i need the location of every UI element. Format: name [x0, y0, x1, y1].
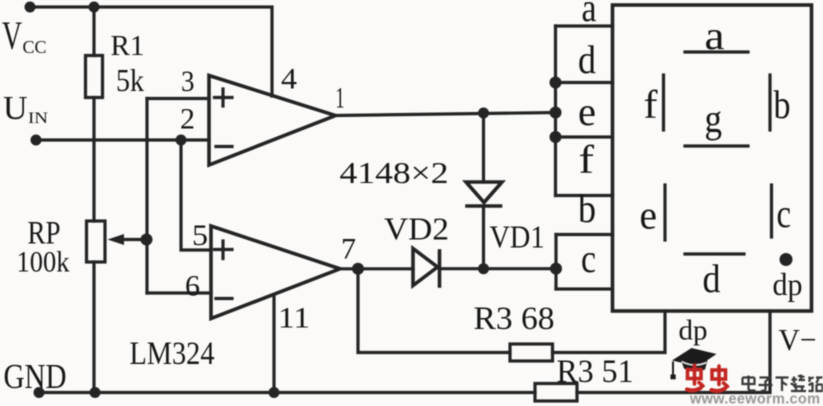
- watermark graduation cap: [671, 348, 717, 379]
- wire stub b: [556, 233, 613, 236]
- wire pin3 to pin6 vertical: [145, 99, 148, 294]
- display DS1 outline: [613, 5, 812, 311]
- segment c: [772, 185, 792, 237]
- svg-text:3: 3: [181, 65, 195, 98]
- watermark eeworm logo: [671, 348, 823, 406]
- wire pin 6: [147, 291, 211, 294]
- wire R3 51 to V-: [577, 311, 770, 393]
- segment dp: [773, 253, 803, 302]
- svg-text:CC: CC: [23, 37, 47, 57]
- svg-text:100k: 100k: [17, 246, 70, 279]
- wire pin 3: [147, 97, 209, 100]
- svg-text:b: b: [774, 82, 791, 127]
- wire segment bus adef: [554, 26, 557, 196]
- svg-text:e: e: [578, 89, 596, 134]
- node Uin terminal: [31, 135, 42, 146]
- wire pin 7 output right: [440, 267, 557, 270]
- svg-text:VD1: VD1: [490, 219, 545, 255]
- svg-text:R3 68: R3 68: [474, 301, 555, 337]
- node junction pin2 pin5: [176, 135, 187, 146]
- wire Vcc rail to op-amp pin 4: [30, 7, 272, 96]
- node bus c junction: [550, 263, 562, 275]
- watermark chong character 2: [712, 366, 728, 391]
- wire VD1 cathode lead: [482, 206, 485, 269]
- wire VD1 anode lead: [482, 113, 485, 182]
- potentiometer RP: [87, 221, 106, 262]
- segment g: [685, 96, 748, 146]
- svg-text:f: f: [579, 137, 595, 182]
- svg-text:IN: IN: [28, 110, 49, 127]
- wire segment bus bc: [554, 235, 557, 290]
- svg-text:7: 7: [341, 233, 356, 266]
- resistor R1: [86, 56, 103, 98]
- wire RP to ground rail: [92, 262, 95, 393]
- wire R3 68 to display dp pin: [553, 311, 666, 353]
- op-amp U1A: [209, 76, 336, 166]
- op-amp U1B: [211, 226, 340, 319]
- svg-text:VD2: VD2: [384, 211, 449, 247]
- wire ground rail: [39, 391, 535, 394]
- diode VD1: [466, 182, 502, 206]
- node Vcc terminal: [25, 2, 36, 13]
- svg-text:www.eeworm.com: www.eeworm.com: [689, 392, 820, 406]
- wire R1 to RP: [92, 98, 95, 222]
- node bus d junction: [550, 77, 562, 89]
- wire stub d: [556, 81, 613, 84]
- wire stub f: [556, 194, 613, 197]
- svg-text:c: c: [777, 191, 792, 236]
- svg-text:a: a: [705, 13, 725, 58]
- node wiper junction: [141, 234, 153, 246]
- svg-text:a: a: [582, 0, 597, 30]
- wire stub c: [556, 287, 613, 290]
- svg-text:R3 51: R3 51: [557, 354, 634, 390]
- watermark text dianzi xiazaizhan: [743, 375, 823, 392]
- svg-text:g: g: [705, 96, 723, 141]
- svg-text:c: c: [581, 236, 596, 281]
- svg-text:4148×2: 4148×2: [340, 155, 449, 190]
- node R1 top junction: [89, 2, 100, 13]
- watermark chong character 1: [687, 365, 703, 390]
- svg-text:1: 1: [336, 82, 345, 115]
- segment d: [685, 254, 744, 301]
- svg-text:V−: V−: [779, 322, 817, 357]
- svg-text:d: d: [703, 256, 721, 301]
- wire pin 11: [272, 295, 275, 393]
- wire stub a: [556, 24, 613, 27]
- node bus input junction: [550, 107, 562, 119]
- node bus e junction: [550, 131, 562, 143]
- svg-text:6: 6: [185, 270, 200, 303]
- svg-text:d: d: [578, 37, 596, 82]
- wire pin 1 output: [336, 113, 556, 116]
- svg-text:R1: R1: [111, 31, 145, 62]
- node GND terminal: [34, 387, 45, 398]
- svg-text:4: 4: [281, 63, 297, 96]
- svg-text:f: f: [644, 82, 659, 127]
- svg-text:LM324: LM324: [130, 336, 215, 372]
- svg-text:dp: dp: [679, 315, 708, 347]
- segment f: [644, 75, 664, 130]
- svg-text:V: V: [2, 13, 22, 58]
- svg-text:5k: 5k: [116, 62, 144, 98]
- node RP bottom junction: [90, 387, 101, 398]
- resistor R3 68: [510, 344, 553, 361]
- node VD1 top junction: [478, 108, 489, 119]
- wire stub e: [556, 135, 613, 138]
- wire R1 top lead: [92, 7, 95, 56]
- node VD1 bottom junction: [478, 263, 489, 274]
- node pin 7 junction: [352, 263, 364, 275]
- svg-text:5: 5: [192, 219, 208, 252]
- wire pin 7 output left: [340, 267, 413, 270]
- segment e: [640, 185, 666, 240]
- wire RP wiper arrow: [108, 234, 147, 245]
- svg-text:U: U: [3, 90, 28, 127]
- segment b: [770, 75, 791, 130]
- svg-text:dp: dp: [773, 266, 803, 302]
- svg-text:2: 2: [180, 103, 195, 136]
- resistor R3 51: [535, 384, 577, 402]
- diode VD2: [413, 249, 440, 287]
- wire Uin to pin 2: [36, 138, 209, 141]
- wire junction to pin 5: [181, 140, 211, 250]
- wire pin7 node to R3 68: [358, 269, 510, 353]
- svg-text:11: 11: [278, 302, 310, 335]
- svg-text:e: e: [640, 193, 658, 238]
- svg-text:b: b: [578, 186, 596, 231]
- segment a: [685, 13, 748, 58]
- node pin 11 junction: [269, 387, 280, 398]
